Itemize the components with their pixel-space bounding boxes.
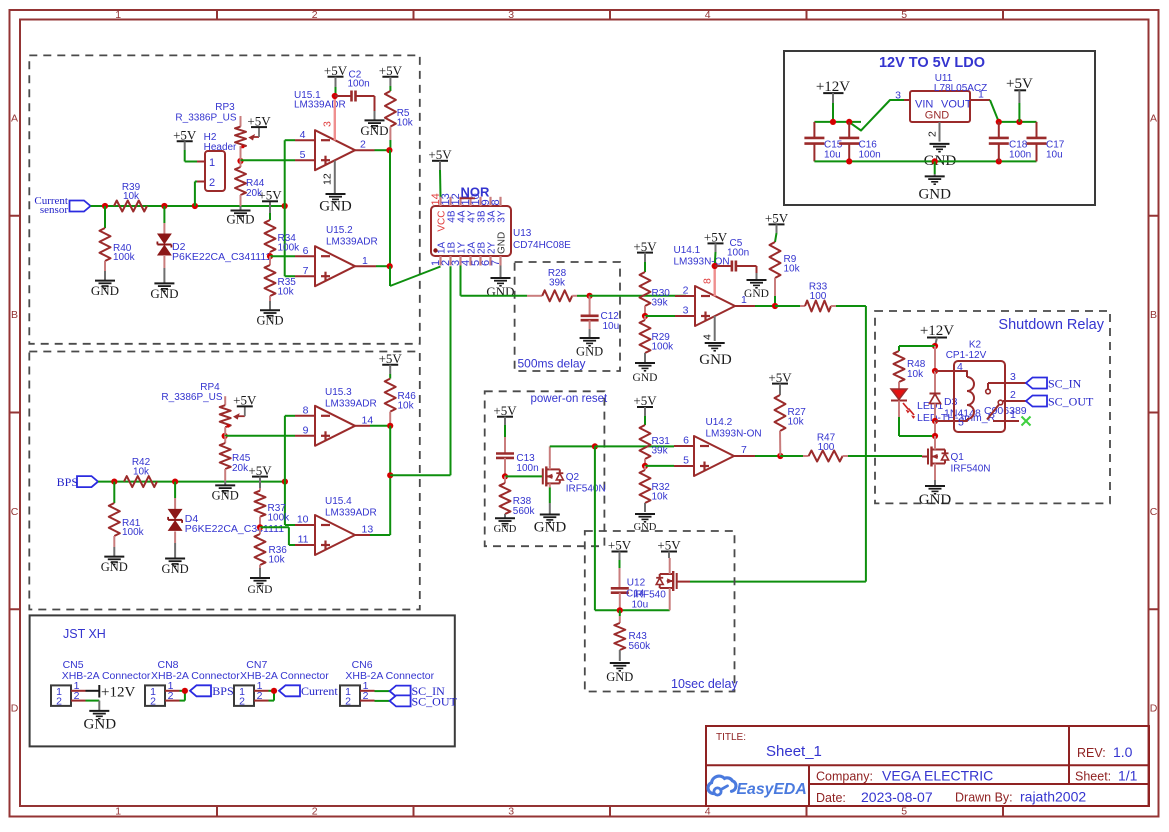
solid box LDO <box>784 51 1095 205</box>
wire Q1 source down <box>934 468 936 481</box>
pin4 ground line U14.1 <box>702 316 715 341</box>
wire LDO right rail <box>999 121 1037 123</box>
svg-text:10k: 10k <box>788 417 805 428</box>
svg-text:Header: Header <box>204 142 237 153</box>
ruler ticks left-right <box>10 216 1160 610</box>
diode D4 TVS <box>168 482 284 543</box>
LED LED1 <box>891 389 996 424</box>
ground R36 <box>248 568 273 596</box>
wire R9 to output node <box>774 296 776 306</box>
U13 pin names <box>433 210 507 254</box>
junction H2 node <box>192 203 198 209</box>
IC U13 body <box>431 197 511 266</box>
wire R33 to 10sec gate <box>690 306 866 582</box>
op-amp U15.3 <box>295 387 377 446</box>
title value Sheet_1 <box>766 743 822 760</box>
svg-text:D3: D3 <box>944 396 958 408</box>
svg-text:39k: 39k <box>652 298 669 309</box>
svg-text:12: 12 <box>322 173 334 185</box>
wire U13 pin3 to R28 <box>461 266 528 296</box>
junction C16 rail <box>846 119 852 125</box>
wire +12V to rail <box>832 103 834 122</box>
svg-text:+5V: +5V <box>379 63 403 78</box>
svg-text:2023-08-07: 2023-08-07 <box>861 789 933 805</box>
potentiometer RP3 <box>175 102 259 148</box>
ruler column numbers <box>115 9 907 818</box>
svg-text:39k: 39k <box>652 446 669 457</box>
svg-text:10u: 10u <box>603 321 620 332</box>
svg-text:11: 11 <box>298 534 309 546</box>
rev value <box>1113 744 1133 760</box>
label 10sec delay <box>671 677 738 691</box>
svg-text:10u: 10u <box>824 150 841 161</box>
power flag +5V R37 <box>248 463 272 488</box>
relay coil <box>935 361 974 429</box>
svg-text:100k: 100k <box>268 513 291 524</box>
junction C13-R38-gate node <box>502 473 508 479</box>
wire LED to rail <box>899 401 935 437</box>
wire CN6 pin1 <box>375 690 390 692</box>
svg-text:Drawn By:: Drawn By: <box>955 791 1013 805</box>
svg-text:GND: GND <box>534 520 567 536</box>
svg-text:10k: 10k <box>652 492 669 503</box>
relay pin1 stub <box>1005 409 1019 421</box>
svg-text:Company:: Company: <box>816 770 873 784</box>
ground U13 pin7 <box>486 266 514 300</box>
wire main down to plus input U15.2 <box>285 206 295 276</box>
svg-text:2: 2 <box>1010 389 1016 401</box>
svg-text:CP1-12V: CP1-12V <box>946 350 987 361</box>
company value <box>882 768 993 784</box>
svg-text:GND: GND <box>256 314 283 328</box>
power flag +5V C14 <box>608 538 632 560</box>
junction D4 node <box>172 479 178 485</box>
power flag +5V R34 <box>258 188 282 203</box>
resistor R41 <box>109 482 145 547</box>
svg-text:5: 5 <box>958 417 964 429</box>
wire divider to plus U14.1 <box>645 315 686 317</box>
junction C18 bottom <box>996 158 1002 164</box>
junction RP3-R44 node <box>237 158 243 164</box>
svg-text:2: 2 <box>74 690 80 702</box>
svg-text:3: 3 <box>508 806 514 818</box>
junction RP4-R45 node <box>222 433 228 439</box>
op-amp U14.1 <box>674 245 756 326</box>
svg-text:12V TO 5V LDO: 12V TO 5V LDO <box>879 55 985 71</box>
svg-text:1: 1 <box>978 89 984 101</box>
svg-text:R_3386P_US: R_3386P_US <box>175 113 236 124</box>
U11 ref labels <box>934 73 987 94</box>
junction U14.2 output node <box>777 453 783 459</box>
svg-text:JST XH: JST XH <box>63 627 106 641</box>
svg-text:GND: GND <box>494 524 517 535</box>
svg-text:IRF540N: IRF540N <box>566 484 606 495</box>
svg-text:5: 5 <box>901 806 907 818</box>
svg-text:+5V: +5V <box>248 463 272 478</box>
EasyEDA logo <box>708 776 807 798</box>
svg-text:GND: GND <box>162 562 189 576</box>
svg-text:8: 8 <box>490 199 502 205</box>
resistor R35 <box>265 256 297 301</box>
junction U15.2 output node <box>387 263 393 269</box>
ground R43 <box>606 663 633 684</box>
port Current at CN7 <box>279 684 338 698</box>
svg-text:EasyEDA: EasyEDA <box>737 781 807 798</box>
svg-text:10u: 10u <box>1046 150 1063 161</box>
power flag +5V U12 <box>657 538 681 558</box>
resistor R28 <box>527 268 577 301</box>
svg-text:2: 2 <box>239 696 245 708</box>
ground LDO rail <box>918 174 951 203</box>
power flag +5V for H2 <box>173 128 197 151</box>
svg-text:2: 2 <box>363 690 369 702</box>
port SC_IN at CN6 <box>390 684 446 698</box>
junction U15.3 output node <box>387 423 393 429</box>
transistor U12 mosfet <box>656 558 677 592</box>
label 12V TO 5V LDO <box>879 55 985 71</box>
svg-text:14: 14 <box>362 415 374 427</box>
svg-text:8: 8 <box>702 278 714 284</box>
svg-text:10k: 10k <box>398 401 415 412</box>
power flag +5V RP4 wiper <box>233 393 257 408</box>
relay K2 body <box>946 340 1005 433</box>
resistor R5 <box>385 86 414 140</box>
svg-text:3: 3 <box>683 305 689 317</box>
svg-text:REV:: REV: <box>1077 746 1106 760</box>
svg-text:100n: 100n <box>1009 150 1031 161</box>
pin12 ground line U15.1 <box>322 161 335 194</box>
svg-text:GND: GND <box>633 372 658 384</box>
ground R44 <box>226 206 254 227</box>
svg-text:4: 4 <box>702 334 714 340</box>
svg-text:1.0: 1.0 <box>1113 744 1133 760</box>
power flag +5V RP3 wiper <box>247 113 271 128</box>
power flag +5V LDO <box>1006 76 1033 122</box>
svg-text:560k: 560k <box>629 641 652 652</box>
relay contacts <box>986 383 1005 421</box>
svg-text:+5V: +5V <box>657 538 681 553</box>
svg-text:U15.4: U15.4 <box>325 496 352 507</box>
wire CN7 pins tied <box>269 691 275 701</box>
svg-text:9: 9 <box>303 425 309 437</box>
label power-on reset <box>531 393 609 405</box>
svg-text:2: 2 <box>345 696 351 708</box>
svg-text:IRF540N: IRF540N <box>951 464 991 475</box>
ground Q1 <box>919 480 952 508</box>
wire LDO bottom rail <box>814 160 1036 162</box>
rev label <box>1077 746 1106 760</box>
wire main BPS net <box>98 481 285 483</box>
svg-text:LM339ADR: LM339ADR <box>294 100 346 111</box>
dashed box current-sensor block <box>29 55 420 343</box>
svg-text:2: 2 <box>209 177 215 189</box>
U11 pin3 stub <box>895 90 910 102</box>
wire output node to U13 pin1 <box>390 266 441 286</box>
junction R30-R29 node <box>642 313 648 319</box>
svg-text:10k: 10k <box>123 191 140 202</box>
ground D2 <box>150 268 178 301</box>
wire U15.3 output <box>370 425 390 427</box>
svg-text:B: B <box>11 309 18 321</box>
svg-text:+5V: +5V <box>493 403 517 418</box>
svg-text:Q2: Q2 <box>566 472 580 483</box>
connector CN5 <box>51 659 151 708</box>
resistor R33 <box>775 282 836 312</box>
wire CN6 pin2 <box>375 700 390 702</box>
svg-text:7: 7 <box>303 265 309 277</box>
wire BPS comparator bus <box>389 426 391 535</box>
svg-text:3: 3 <box>322 121 334 127</box>
junction U15.1 output node <box>386 147 392 153</box>
svg-text:SC_IN: SC_IN <box>1048 377 1082 391</box>
svg-text:10k: 10k <box>907 369 924 380</box>
capacitor C14 <box>611 560 629 610</box>
capacitor C5 <box>715 238 757 273</box>
svg-text:Q1: Q1 <box>951 452 965 463</box>
wire U14.2 output <box>755 455 780 457</box>
company label <box>816 770 873 784</box>
junction R37-R36 node <box>257 524 263 530</box>
svg-text:NOR: NOR <box>461 185 491 200</box>
wire delay node to minus U14.1 <box>590 295 686 297</box>
svg-text:GND: GND <box>101 560 128 574</box>
junction CN7 node <box>271 688 277 694</box>
resistor R39 <box>114 182 147 212</box>
op-amp U15.2 <box>295 225 378 286</box>
junction R28-C12 node <box>587 293 593 299</box>
resistor R31 <box>640 416 671 466</box>
svg-text:+5V: +5V <box>379 351 403 366</box>
svg-text:1: 1 <box>362 255 368 267</box>
wire U12 gate stub <box>677 581 690 583</box>
svg-text:VEGA ELECTRIC: VEGA ELECTRIC <box>882 768 993 784</box>
label 500ms delay <box>518 357 586 371</box>
svg-text:560k: 560k <box>513 506 536 517</box>
header H2 <box>197 132 237 191</box>
svg-text:GND: GND <box>91 283 119 298</box>
transistor Q1 <box>928 436 991 475</box>
svg-text:8: 8 <box>303 405 309 417</box>
resistor R38 <box>500 476 536 518</box>
power flag +5V R9 <box>765 211 789 233</box>
svg-text:GND: GND <box>150 286 178 301</box>
title block frame <box>706 726 1149 806</box>
wire D3 to Q1 drain <box>934 421 936 436</box>
svg-text:39k: 39k <box>549 278 566 289</box>
svg-text:20k: 20k <box>232 463 249 474</box>
ruler ticks top-bottom <box>217 10 1003 817</box>
svg-text:GND: GND <box>360 123 388 138</box>
wire divider to plus input U15.4 <box>260 527 295 545</box>
resistor R46 <box>385 374 417 426</box>
power flag +12V relay <box>920 323 954 346</box>
svg-text:SC_OUT: SC_OUT <box>412 695 458 709</box>
power flag +5V R5 <box>379 63 403 86</box>
svg-text:TITLE:: TITLE: <box>716 732 746 743</box>
svg-text:GND: GND <box>918 187 951 203</box>
junction U14.1 pin8 node <box>712 263 718 269</box>
svg-text:GND: GND <box>606 670 633 684</box>
capacitor C17 <box>1027 122 1065 161</box>
solid box JST XH <box>30 615 455 746</box>
resistor R30 <box>640 262 671 316</box>
wire node to Q2 gate <box>505 475 543 477</box>
date value <box>861 789 933 805</box>
wire R47 to Q1 gate <box>848 455 922 457</box>
svg-text:1/1: 1/1 <box>1118 768 1138 784</box>
ground C12 <box>576 329 603 359</box>
resistor R27 <box>775 395 807 456</box>
svg-text:GND: GND <box>919 492 952 508</box>
wire CN8 pins tied <box>180 691 185 701</box>
wire +12V down to D3 <box>934 346 936 371</box>
svg-text:U15.3: U15.3 <box>325 387 352 398</box>
svg-text:2: 2 <box>56 696 62 708</box>
op-amp U15.1 <box>294 90 375 170</box>
ground CN5 <box>84 711 117 733</box>
junction R34-R35 node <box>267 253 273 259</box>
no-connect X <box>1022 417 1031 426</box>
wire +12V to R48 <box>899 345 935 347</box>
svg-text:500ms delay: 500ms delay <box>518 357 586 371</box>
dashed box power-on reset <box>485 391 605 546</box>
power flag +5V C13 <box>493 403 517 425</box>
power flag +5V R31 <box>633 393 657 416</box>
label Shutdown Relay <box>998 317 1104 333</box>
title label <box>716 732 746 743</box>
port SC_OUT relay <box>1026 395 1094 409</box>
svg-text:Date:: Date: <box>816 791 846 805</box>
svg-text:2: 2 <box>312 9 318 21</box>
svg-text:Sheet_1: Sheet_1 <box>766 743 822 760</box>
port SC_IN relay <box>1026 377 1082 391</box>
wire divider to minus U15.2 <box>270 255 295 257</box>
junction +12V relay node <box>932 343 938 349</box>
svg-text:2: 2 <box>257 690 263 702</box>
svg-text:U14.2: U14.2 <box>706 417 733 428</box>
svg-text:B: B <box>1150 309 1157 321</box>
sheet label <box>1075 770 1111 784</box>
wire LDO left rail <box>814 121 861 123</box>
svg-text:Current: Current <box>301 684 338 698</box>
power flag +12V CN5 <box>86 685 136 701</box>
junction U14.1 output node <box>772 303 778 309</box>
svg-text:10k: 10k <box>133 467 150 478</box>
svg-text:10k: 10k <box>397 118 414 129</box>
junction +5V rail <box>1016 119 1022 125</box>
dashed box 500ms delay <box>515 262 620 371</box>
svg-text:GND: GND <box>319 199 352 215</box>
svg-text:2: 2 <box>150 696 156 708</box>
svg-text:GND: GND <box>699 352 732 368</box>
svg-text:GND: GND <box>496 232 507 254</box>
svg-text:100k: 100k <box>122 527 145 538</box>
svg-text:6: 6 <box>303 245 309 257</box>
svg-text:4: 4 <box>705 9 711 21</box>
wire output bus down <box>389 150 391 266</box>
svg-text:Shutdown Relay: Shutdown Relay <box>998 317 1104 333</box>
svg-text:4: 4 <box>300 129 306 141</box>
wire R5 to U15.1 output <box>375 140 391 150</box>
svg-text:LM339ADR: LM339ADR <box>325 399 377 410</box>
svg-text:XHB-2A Connector: XHB-2A Connector <box>62 670 151 682</box>
net label NOR <box>460 185 491 200</box>
capacitor C13 <box>496 425 539 476</box>
svg-text:D: D <box>11 703 19 715</box>
wire R28 to node <box>577 295 590 297</box>
resistor R29 <box>640 316 675 363</box>
port SC_OUT at CN6 <box>390 695 458 709</box>
svg-text:+5V: +5V <box>233 393 257 408</box>
diode D3 <box>930 371 1027 421</box>
svg-text:100k: 100k <box>278 243 301 254</box>
svg-text:100n: 100n <box>859 150 881 161</box>
power flag +12V LDO <box>816 79 850 103</box>
resistor R36 <box>255 527 288 568</box>
junction CN8 node <box>182 688 188 694</box>
diode D2 TVS <box>157 206 271 268</box>
power flag +5V U13 <box>428 147 452 197</box>
junction C16 bottom <box>846 158 852 164</box>
svg-text:10: 10 <box>297 514 309 526</box>
potentiometer RP4 <box>161 382 244 428</box>
svg-text:10k: 10k <box>784 264 801 275</box>
junction R31-R32 node <box>642 463 648 469</box>
svg-text:RP3: RP3 <box>215 102 235 113</box>
svg-text:R_3386P_US: R_3386P_US <box>161 392 222 403</box>
svg-text:10u: 10u <box>632 600 649 611</box>
svg-text:D: D <box>1150 703 1158 715</box>
svg-text:+5V: +5V <box>247 113 271 128</box>
svg-text:LM393N-ON: LM393N-ON <box>706 429 762 440</box>
power flag +5V C5 <box>704 230 728 266</box>
svg-text:3: 3 <box>1010 371 1016 383</box>
svg-text:XHB-2A Connector: XHB-2A Connector <box>151 670 240 682</box>
drawnby value <box>1020 789 1086 805</box>
port BPS <box>57 475 98 489</box>
svg-text:C: C <box>11 506 19 518</box>
wire main to minus input U15.1 <box>285 140 295 206</box>
capacitor C16 <box>839 122 881 161</box>
svg-text:GND: GND <box>925 110 950 122</box>
port Current sensor <box>34 195 90 216</box>
wire BPS to minus input U15.3 <box>285 416 295 482</box>
wire RP3 node to plus input <box>241 146 296 161</box>
svg-text:100: 100 <box>818 442 835 453</box>
svg-text:10sec delay: 10sec delay <box>671 677 738 691</box>
junction D2 node <box>161 203 167 209</box>
resistor R45 <box>220 436 251 481</box>
capacitor C18 <box>989 122 1031 161</box>
svg-text:K2: K2 <box>969 340 982 351</box>
pin3 power line U15.1 <box>322 96 335 141</box>
wire BPS down to minus input U15.4 <box>285 482 295 525</box>
resistor R9 <box>770 233 801 296</box>
date label <box>816 791 846 805</box>
wire CN5 pin2 to gnd <box>86 701 100 711</box>
ground U15.1 pin12 <box>319 194 352 215</box>
junction +12V rail <box>830 119 836 125</box>
ground D4 <box>162 543 189 576</box>
svg-text:LM339ADR: LM339ADR <box>326 237 378 248</box>
wire main current-sensor net <box>91 205 285 207</box>
labels U12 C14 <box>626 578 666 611</box>
svg-text:GND: GND <box>248 584 273 596</box>
ground R35 <box>256 301 283 328</box>
svg-text:BPS: BPS <box>57 475 78 489</box>
svg-text:CD74HC08E: CD74HC08E <box>513 240 571 251</box>
wire U15.2 output <box>376 265 390 267</box>
